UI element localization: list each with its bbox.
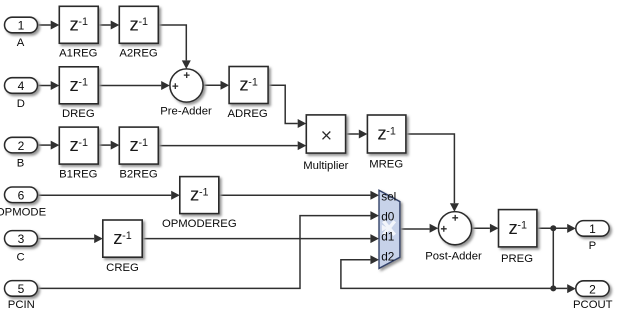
svg-text:PCOUT: PCOUT: [573, 299, 613, 311]
svg-text:PCIN: PCIN: [8, 299, 35, 311]
svg-text:CREG: CREG: [106, 262, 139, 274]
svg-text:Post-Adder: Post-Adder: [425, 251, 482, 263]
svg-text:d1: d1: [381, 230, 394, 244]
svg-text:6: 6: [18, 189, 25, 203]
svg-text:A1REG: A1REG: [59, 48, 97, 60]
svg-text:P: P: [589, 240, 597, 252]
svg-text:A2REG: A2REG: [119, 48, 157, 60]
svg-text:2: 2: [18, 139, 25, 153]
svg-text:4: 4: [18, 79, 25, 93]
svg-text:MREG: MREG: [369, 158, 403, 170]
svg-text:d2: d2: [381, 250, 394, 264]
svg-text:B2REG: B2REG: [119, 169, 157, 181]
svg-text:2: 2: [589, 282, 596, 296]
svg-text:OPMODE: OPMODE: [0, 207, 47, 219]
svg-text:B: B: [17, 157, 25, 169]
svg-text:Multiplier: Multiplier: [303, 160, 348, 172]
svg-text:C: C: [17, 251, 25, 263]
svg-text:DREG: DREG: [62, 108, 95, 120]
svg-text:1: 1: [589, 222, 596, 236]
svg-text:Pre-Adder: Pre-Adder: [160, 106, 212, 118]
svg-text:5: 5: [18, 282, 25, 296]
svg-text:3: 3: [18, 232, 25, 246]
svg-text:B1REG: B1REG: [59, 169, 97, 181]
svg-text:PREG: PREG: [501, 253, 533, 265]
svg-text:ADREG: ADREG: [228, 108, 268, 120]
svg-text:D: D: [17, 98, 25, 110]
svg-text:d0: d0: [381, 210, 395, 224]
svg-text:1: 1: [18, 19, 25, 33]
svg-text:OPMODEREG: OPMODEREG: [162, 218, 237, 230]
svg-text:sel: sel: [381, 189, 396, 203]
svg-text:A: A: [17, 37, 25, 49]
